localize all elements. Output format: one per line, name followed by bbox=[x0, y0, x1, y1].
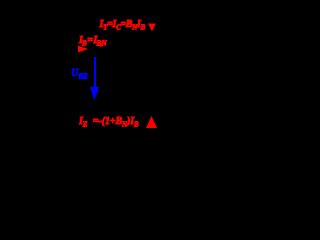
wire arrows and current-direction triangles bbox=[0, 0, 220, 160]
arrow up: I_E increase indicator bbox=[146, 116, 157, 128]
U_BE voltage arrowhead (points down) bbox=[90, 87, 99, 101]
base current arrowhead (points right) bbox=[78, 46, 88, 53]
wire: U_BE voltage arrow stem bbox=[94, 57, 96, 88]
equation: emitter current I_E = -(1+B_N)I_B bbox=[79, 117, 139, 127]
node label U_BE (base-emitter voltage) bbox=[71, 69, 88, 79]
equation: base current I_B = I_B,N bbox=[79, 36, 106, 46]
equation: collector current I_T = I_C = B_N I_B bbox=[100, 20, 145, 30]
arrow down: I_T/I_C decrease indicator bbox=[148, 24, 156, 32]
